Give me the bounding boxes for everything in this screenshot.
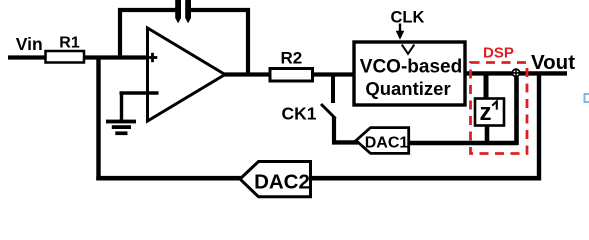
capacitor C1 plates <box>175 0 181 18</box>
resistor R1 <box>46 51 85 63</box>
wire: quantizer output to Vout <box>465 71 567 75</box>
wire: feedback vertical up at x=120 to capacitor loop <box>118 8 122 59</box>
svg-text:DSP: DSP <box>483 45 514 62</box>
svg-text:z: z <box>480 99 492 126</box>
wire: inverting input wire + minus sign <box>120 91 159 95</box>
svg-text:CLK: CLK <box>391 9 425 27</box>
resistor R2 <box>270 69 313 82</box>
summing node <box>512 69 519 76</box>
ground stem <box>120 93 123 120</box>
svg-text:VCO-based: VCO-based <box>360 57 462 78</box>
svg-text:Vout: Vout <box>531 51 575 74</box>
svg-text:Quantizer: Quantizer <box>365 78 450 99</box>
wire: op-amp output to quantizer <box>223 72 354 76</box>
wire: Vout junction vertical down <box>537 74 541 180</box>
svg-text:DAC2: DAC2 <box>254 171 310 194</box>
svg-text:R1: R1 <box>59 35 80 52</box>
wire: z-1 top stub <box>484 74 489 100</box>
wire: top feedback vertical down at x=248 <box>246 8 250 76</box>
switch CK1 blade <box>321 104 336 119</box>
wire: input from Vin to op-amp + input <box>8 55 147 59</box>
wire: summing node down vertical <box>514 77 519 145</box>
delay block z^-1 <box>475 99 504 126</box>
switch CK1 stub from signal wire <box>331 75 335 104</box>
wire: feedback vertical down at x=98.5 <box>96 56 100 181</box>
ground <box>106 120 136 124</box>
DAC1 <box>356 128 409 154</box>
wire: DAC1 input wire from DSP loop <box>409 141 518 146</box>
wire: switch to DAC1 horizontal <box>332 140 358 144</box>
op-amp plus input sign <box>148 56 158 59</box>
op-amp U1 <box>148 28 226 121</box>
DAC2 <box>240 162 311 197</box>
clock notch on box edge <box>402 45 415 54</box>
wire: top feedback horizontal (right of capacitor) <box>189 8 250 12</box>
blue square artifact at right edge <box>585 94 589 102</box>
wire: switch to DAC1 vertical <box>332 117 336 142</box>
CLK arrow <box>399 24 401 33</box>
DSP dashed box <box>471 63 528 154</box>
svg-text:R2: R2 <box>281 49 303 68</box>
svg-text:CK1: CK1 <box>282 104 317 124</box>
wire: bottom feedback horizontal <box>96 176 541 181</box>
VCO-based Quantizer box U2 <box>354 42 465 105</box>
svg-text:Vin: Vin <box>16 34 43 54</box>
wire: z-1 bottom stub <box>485 124 490 145</box>
svg-text:DAC1: DAC1 <box>365 134 409 151</box>
wire: top feedback horizontal (left of capacitor) <box>118 8 177 12</box>
